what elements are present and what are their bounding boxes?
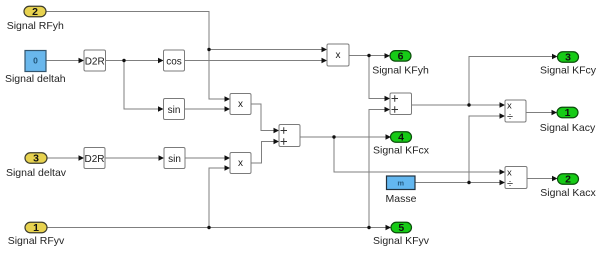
gain block D2R1 bbox=[84, 50, 106, 71]
svg-text:Signal KFcy: Signal KFcy bbox=[540, 65, 597, 77]
svg-text:Signal KFyv: Signal KFyv bbox=[373, 235, 430, 247]
wire product x1 to sum1 bbox=[251, 104, 279, 133]
svg-text:÷: ÷ bbox=[507, 111, 513, 123]
product block x3 bbox=[327, 44, 349, 66]
svg-text:0: 0 bbox=[33, 56, 38, 66]
gain block D2R2 bbox=[84, 148, 105, 169]
inport 2 Signal RFyh bbox=[24, 6, 46, 18]
constant block 0 (Signal deltah) bbox=[25, 51, 46, 72]
trig block sin1 bbox=[164, 99, 185, 120]
svg-text:sin: sin bbox=[168, 105, 181, 116]
outport 3 Signal KFcy bbox=[558, 52, 579, 64]
wire cos to product x3 bbox=[185, 58, 328, 63]
svg-text:x: x bbox=[238, 99, 243, 110]
outport 1 Signal Kacy bbox=[557, 107, 578, 119]
svg-text:x: x bbox=[336, 50, 341, 61]
wire D2R1 to cos and sin1 bbox=[106, 58, 164, 112]
wire divide1 to outport Kacy bbox=[526, 110, 557, 115]
svg-text:4: 4 bbox=[398, 132, 404, 144]
svg-text:6: 6 bbox=[398, 50, 404, 62]
svg-text:Signal Kacx: Signal Kacx bbox=[540, 187, 596, 199]
inport 1 Signal RFyv bbox=[25, 222, 47, 234]
divide block divide2 bbox=[505, 167, 527, 190]
outport 6 Signal KFyh bbox=[390, 50, 411, 62]
svg-text:D2R: D2R bbox=[85, 56, 105, 67]
svg-text:5: 5 bbox=[398, 222, 404, 234]
sum block sum2 bbox=[390, 93, 412, 115]
svg-text:Signal KFyh: Signal KFyh bbox=[372, 65, 429, 77]
product block x1 bbox=[230, 94, 251, 115]
svg-text:3: 3 bbox=[565, 52, 571, 64]
wire inport 3 Signal deltav to D2R2 bbox=[47, 155, 84, 160]
svg-text:D2R: D2R bbox=[84, 154, 104, 165]
outport 2 Signal Kacx bbox=[558, 174, 579, 186]
svg-text:x: x bbox=[238, 158, 243, 169]
trig block sin2 bbox=[164, 148, 185, 169]
svg-text:1: 1 bbox=[33, 222, 39, 234]
product block x2 bbox=[230, 153, 251, 174]
wire divide2 to outport Kacx bbox=[527, 176, 558, 181]
wire inport 1 Signal RFyv to outport 5, product x2, sum2 bbox=[47, 107, 391, 230]
divide block divide1 bbox=[505, 100, 526, 123]
outport 5 Signal KFyv bbox=[391, 222, 412, 234]
wire product x2 to sum1 bbox=[251, 139, 279, 163]
wire constant m to divide2 and divide1 bbox=[415, 113, 505, 185]
svg-text:x: x bbox=[507, 101, 512, 112]
svg-text:Masse: Masse bbox=[386, 193, 417, 205]
svg-text:Signal deltav: Signal deltav bbox=[6, 167, 67, 179]
svg-text:Signal KFcx: Signal KFcx bbox=[373, 145, 430, 157]
svg-text:÷: ÷ bbox=[507, 178, 513, 190]
svg-text:x: x bbox=[507, 167, 512, 178]
svg-text:Signal Kacy: Signal Kacy bbox=[540, 122, 596, 134]
inport 3 Signal deltav bbox=[25, 153, 47, 165]
svg-text:Signal deltah: Signal deltah bbox=[5, 73, 66, 85]
wire sin2 to product x2 bbox=[185, 155, 230, 160]
outport 4 Signal KFcx bbox=[391, 132, 412, 144]
svg-text:1: 1 bbox=[565, 107, 571, 119]
wire D2R2 to sin2 bbox=[105, 155, 164, 160]
trig block cos bbox=[164, 50, 185, 71]
svg-text:Signal RFyh: Signal RFyh bbox=[7, 20, 64, 32]
svg-text:Signal RFyv: Signal RFyv bbox=[8, 235, 65, 247]
wire constant 0 to D2R1 bbox=[46, 58, 84, 63]
constant block m (Masse) bbox=[387, 176, 416, 190]
svg-text:m: m bbox=[397, 179, 404, 188]
svg-text:sin: sin bbox=[168, 154, 181, 165]
wire sin1 to product x1 bbox=[185, 106, 231, 111]
svg-text:2: 2 bbox=[32, 6, 38, 18]
wire sum1 to outport 4 and divide2 bbox=[300, 134, 505, 174]
wire Signal RFyh: inport 2 to product x3 and product x1 bbox=[46, 12, 327, 102]
sum block sum1 bbox=[279, 125, 300, 147]
wire product x3 to outport 6 and sum2 bbox=[349, 53, 390, 101]
svg-text:cos: cos bbox=[166, 56, 182, 67]
svg-text:2: 2 bbox=[565, 174, 571, 186]
svg-text:3: 3 bbox=[33, 153, 39, 165]
wire sum2 to divide1 and outport KFcy bbox=[412, 54, 558, 108]
